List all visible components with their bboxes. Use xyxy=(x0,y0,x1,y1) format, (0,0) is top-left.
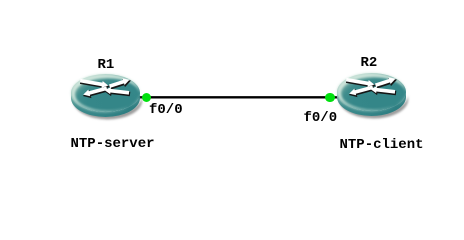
router cylinder top face xyxy=(337,73,406,111)
router R1 xyxy=(71,74,145,126)
node: green link-status dot at R2 f0/0 xyxy=(325,93,335,103)
top-left rim highlight xyxy=(71,74,140,112)
label f0/0 (R2 interface) xyxy=(304,111,338,125)
label R2 xyxy=(361,56,378,70)
label f0/0 (R1 interface) xyxy=(149,103,183,117)
label NTP-client xyxy=(340,138,424,152)
top-left rim highlight xyxy=(337,73,406,111)
router cylinder side xyxy=(71,93,140,117)
north-west inbound arrow xyxy=(80,78,108,87)
north-east outbound arrow xyxy=(375,77,396,86)
node: green link-status dot at R1 f0/0 xyxy=(142,93,152,103)
south-east inbound arrow xyxy=(370,86,395,93)
label R1 xyxy=(98,58,115,72)
arrow drop shadows xyxy=(80,79,130,97)
router cylinder side xyxy=(337,92,406,116)
router drop shadow xyxy=(73,95,142,119)
north-east outbound arrow xyxy=(109,78,130,87)
router drop shadow xyxy=(339,95,408,119)
south-west outbound arrow xyxy=(349,85,373,95)
label NTP-server xyxy=(71,137,155,151)
south-west outbound arrow xyxy=(83,86,107,96)
router R2 xyxy=(337,73,411,125)
south-east inbound arrow xyxy=(104,87,129,94)
router cylinder top face xyxy=(71,74,140,112)
arrow drop shadows xyxy=(346,79,396,97)
north-west inbound arrow xyxy=(346,78,374,87)
